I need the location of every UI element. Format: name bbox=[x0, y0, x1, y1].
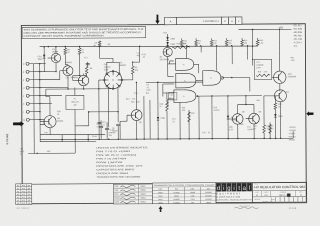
wire x180 drop bbox=[179, 102, 181, 138]
top margin small cell 3 bbox=[235, 17, 242, 24]
gate A1 bbox=[176, 58, 194, 70]
wire Q6 base bbox=[126, 115, 128, 121]
resistor R28 bbox=[274, 96, 276, 103]
wire gate C out bbox=[222, 76, 250, 78]
resistor R15 bbox=[174, 46, 190, 48]
rail drops to gates bbox=[186, 46, 188, 58]
zener D1 1N758 bbox=[227, 96, 229, 115]
wire -15V rise bbox=[74, 134, 76, 153]
left margin arrow bbox=[13, 121, 24, 126]
transformer T1 bbox=[104, 71, 122, 89]
transistor Q8 bbox=[232, 114, 243, 125]
wire mid-left net bbox=[89, 111, 118, 113]
resistor comb R10-R16 bbox=[180, 40, 183, 46]
transistor Q6 bbox=[131, 110, 142, 121]
transistor Q10 bbox=[274, 71, 286, 83]
wire T1 top leads bbox=[106, 62, 108, 73]
mid rail bbox=[40, 133, 105, 135]
diode CR1 D664 bbox=[43, 47, 45, 55]
transistor Q3 bbox=[78, 75, 88, 85]
wire gate A out bbox=[194, 63, 199, 65]
handwritten note 1 bbox=[235, 207, 259, 209]
wire flipflop tops bbox=[238, 103, 254, 105]
connector wire column 1 bbox=[33, 64, 36, 154]
revision table bbox=[16, 184, 32, 205]
top margin small cell 1 bbox=[221, 17, 228, 24]
transistor Q7 bbox=[163, 47, 172, 56]
signature table bbox=[113, 184, 152, 204]
wire aux risers bbox=[61, 135, 63, 142]
wire x199 drop bbox=[198, 96, 200, 138]
logo box outline bbox=[216, 182, 253, 203]
wire pin M loop bbox=[40, 120, 44, 125]
top margin revision stamp box bbox=[164, 17, 176, 24]
transistor Q11 bbox=[274, 90, 286, 102]
diode D662 mid bbox=[157, 82, 159, 117]
wire y82 link bbox=[146, 81, 203, 83]
top rail junction dots bbox=[43, 46, 45, 48]
wire x212 drop bbox=[211, 96, 213, 138]
resistor R5 bbox=[98, 41, 101, 47]
wire pin E bbox=[40, 71, 56, 73]
transistor Q4 bbox=[44, 116, 56, 128]
wire gate A2 out bbox=[196, 79, 203, 81]
gate A3 bbox=[174, 90, 196, 103]
label C10 boxed bbox=[168, 92, 177, 100]
top margin down arrow bbox=[155, 15, 159, 25]
right margin arrow bbox=[306, 111, 313, 116]
wire x150 drop bbox=[143, 96, 145, 139]
wire gate A3 out bbox=[197, 95, 199, 97]
wire C17 to base bbox=[272, 76, 274, 78]
ground bus bbox=[40, 138, 293, 139]
capacitor C11 bbox=[100, 120, 102, 126]
resistor R23 bbox=[264, 95, 274, 97]
delay line P1 box bbox=[66, 95, 84, 109]
wire pin J bbox=[40, 95, 62, 97]
ground bus dots bbox=[61, 139, 63, 141]
title strip top rule bbox=[32, 183, 307, 185]
capacitor C18 bbox=[106, 122, 108, 128]
diode D662 a bbox=[167, 34, 169, 37]
transistor diode conversion chart bbox=[152, 183, 216, 204]
wire x140 riser bbox=[139, 47, 141, 62]
diode D662 b bbox=[166, 42, 168, 45]
wire bus tail bbox=[292, 131, 294, 138]
wire Q2-Q3 link bbox=[73, 74, 80, 76]
wire gate inputs bbox=[170, 60, 174, 62]
wire pin H bbox=[40, 87, 68, 89]
wire T1 bottom leads bbox=[107, 87, 109, 127]
capacitor C17 bbox=[254, 59, 272, 79]
wire x120 drop bbox=[119, 131, 121, 139]
wire T1 left lead bbox=[99, 79, 104, 81]
resistor R17 bbox=[166, 92, 168, 101]
wire -15V run bbox=[28, 152, 75, 154]
DEC digital logo bbox=[216, 183, 221, 191]
resistor R9 bbox=[131, 66, 134, 74]
transistor Q2 bbox=[63, 66, 73, 76]
transistor Q1 bbox=[51, 53, 60, 62]
conversion chart arrow bbox=[159, 206, 163, 212]
wire x270 drop bbox=[269, 122, 271, 138]
+10V top rail bbox=[40, 45, 258, 47]
transistor Q9 bbox=[249, 113, 260, 124]
proprietary note box bbox=[22, 27, 146, 39]
connector pin stubs bbox=[34, 63, 40, 65]
capacitor C6 bbox=[116, 123, 120, 125]
connector wire column 2 bbox=[39, 64, 41, 142]
capacitor C13 bbox=[97, 121, 101, 123]
wire pin D bbox=[40, 63, 46, 65]
resistor R18 bbox=[256, 74, 270, 76]
wire aux horizontal bbox=[40, 140, 96, 142]
title block bbox=[252, 182, 306, 203]
wire T1 right lead bbox=[122, 79, 133, 81]
wire +6V drop a bbox=[252, 29, 254, 65]
top margin drawing number strip bbox=[176, 17, 221, 25]
diode D665 bbox=[274, 114, 276, 117]
wire +6V rail bbox=[239, 28, 292, 30]
top margin small cell 2 bbox=[228, 17, 235, 24]
wire x189 drop bbox=[188, 110, 190, 139]
wire Q4 top bbox=[46, 88, 113, 90]
resistor R6 bbox=[64, 48, 67, 55]
resistor R7 bbox=[78, 48, 81, 55]
gate A2 bbox=[176, 73, 196, 88]
wire pin F bbox=[40, 79, 60, 81]
wire P1 leads bbox=[74, 87, 76, 95]
gate C1 nand bbox=[203, 71, 221, 86]
wire pin K bbox=[40, 103, 52, 105]
sheet border frame bbox=[21, 24, 306, 204]
